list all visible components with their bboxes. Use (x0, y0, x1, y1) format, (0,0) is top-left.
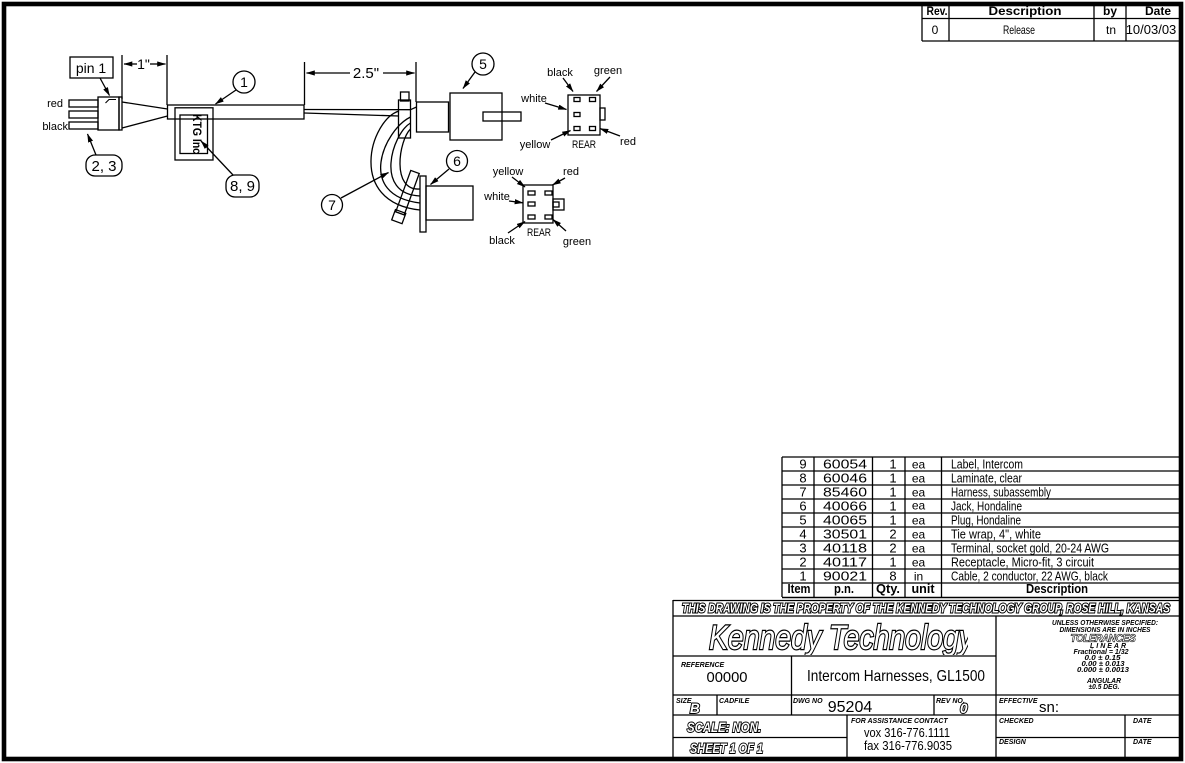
svg-text:ea: ea (912, 514, 926, 528)
svg-text:9: 9 (799, 457, 806, 472)
svg-text:ea: ea (912, 542, 926, 556)
svg-text:60054: 60054 (823, 457, 867, 472)
svg-text:7: 7 (328, 197, 336, 213)
svg-text:1: 1 (889, 499, 896, 514)
svg-text:Date: Date (1145, 4, 1171, 18)
svg-text:1: 1 (889, 457, 896, 472)
svg-text:ea: ea (912, 458, 926, 472)
svg-text:10/03/03: 10/03/03 (1126, 22, 1177, 37)
svg-text:UNLESS OTHERWISE SPECIFIED:: UNLESS OTHERWISE SPECIFIED: (1052, 620, 1158, 627)
svg-text:6: 6 (453, 153, 461, 169)
svg-text:Release: Release (1003, 23, 1035, 37)
svg-text:6: 6 (799, 499, 806, 514)
svg-text:1: 1 (889, 485, 896, 500)
svg-text:Tie wrap, 4", white: Tie wrap, 4", white (951, 527, 1041, 542)
svg-text:±0.5 DEG.: ±0.5 DEG. (1089, 684, 1120, 691)
svg-text:B: B (690, 701, 700, 716)
svg-text:1": 1" (137, 56, 150, 72)
svg-text:KTG Inc: KTG Inc (190, 114, 204, 154)
svg-text:black: black (489, 235, 515, 247)
svg-text:Terminal, socket gold, 20-24 A: Terminal, socket gold, 20-24 AWG (951, 541, 1109, 556)
svg-text:EFFECTIVE: EFFECTIVE (999, 698, 1038, 705)
svg-text:yellow: yellow (520, 139, 551, 151)
svg-text:00000: 00000 (707, 669, 748, 686)
svg-text:pin 1: pin 1 (76, 60, 107, 76)
svg-text:1: 1 (889, 471, 896, 486)
svg-text:Plug, Hondaline: Plug, Hondaline (951, 513, 1021, 528)
svg-text:0.000 ± 0.0013: 0.000 ± 0.0013 (1077, 667, 1129, 674)
svg-text:2: 2 (799, 555, 806, 570)
svg-text:REAR: REAR (527, 227, 551, 239)
svg-text:tn: tn (1106, 23, 1116, 37)
svg-text:yellow: yellow (493, 166, 524, 178)
svg-text:THIS DRAWING IS THE PROPERTY O: THIS DRAWING IS THE PROPERTY OF THE KENN… (682, 602, 1171, 616)
svg-text:Label, Intercom: Label, Intercom (951, 457, 1023, 472)
svg-text:CADFILE: CADFILE (719, 698, 750, 705)
svg-text:ea: ea (912, 472, 926, 486)
svg-text:Qty.: Qty. (876, 581, 900, 596)
svg-text:95204: 95204 (828, 699, 873, 716)
svg-text:black: black (547, 67, 573, 79)
svg-text:Jack, Hondaline: Jack, Hondaline (951, 499, 1022, 514)
svg-text:Kennedy Technology: Kennedy Technology (709, 619, 975, 657)
svg-text:unit: unit (912, 581, 936, 596)
svg-text:Item: Item (788, 581, 811, 596)
svg-text:0: 0 (932, 23, 939, 37)
svg-text:0: 0 (960, 701, 968, 716)
svg-text:40118: 40118 (823, 541, 867, 556)
svg-text:8: 8 (799, 471, 806, 486)
svg-text:85460: 85460 (823, 485, 867, 500)
svg-text:40065: 40065 (823, 513, 867, 528)
svg-text:40117: 40117 (823, 555, 867, 570)
svg-text:2.5": 2.5" (353, 65, 379, 82)
svg-text:40066: 40066 (823, 499, 867, 514)
svg-text:ea: ea (912, 499, 926, 513)
svg-text:white: white (520, 93, 547, 105)
svg-text:p.n.: p.n. (834, 581, 854, 596)
svg-text:white: white (483, 191, 510, 203)
svg-text:REFERENCE: REFERENCE (681, 662, 725, 669)
svg-text:ea: ea (912, 528, 926, 542)
svg-text:7: 7 (799, 485, 806, 500)
svg-text:vox 316-776.1111: vox 316-776.1111 (864, 726, 950, 740)
svg-text:2, 3: 2, 3 (91, 158, 116, 175)
svg-text:DWG NO: DWG NO (793, 698, 823, 705)
svg-text:1: 1 (240, 74, 248, 90)
svg-text:Harness, subassembly: Harness, subassembly (951, 485, 1051, 500)
svg-text:ea: ea (912, 556, 926, 570)
svg-text:Description: Description (989, 4, 1062, 18)
svg-text:FOR ASSISTANCE CONTACT: FOR ASSISTANCE CONTACT (851, 718, 948, 725)
svg-text:3: 3 (799, 541, 806, 556)
svg-text:SHEET 1 OF 1: SHEET 1 OF 1 (690, 741, 763, 756)
svg-text:red: red (620, 136, 636, 148)
svg-text:black: black (42, 121, 68, 133)
svg-text:SCALE: NON.: SCALE: NON. (687, 720, 761, 735)
svg-text:by: by (1103, 4, 1117, 18)
svg-text:fax 316-776.9035: fax 316-776.9035 (864, 739, 952, 753)
svg-text:CHECKED: CHECKED (999, 718, 1034, 725)
svg-text:REAR: REAR (572, 139, 596, 151)
svg-text:green: green (594, 65, 622, 77)
svg-text:green: green (563, 236, 591, 248)
svg-text:Receptacle, Micro-fit, 3 circu: Receptacle, Micro-fit, 3 circuit (951, 555, 1094, 570)
svg-text:60046: 60046 (823, 471, 867, 486)
svg-text:8, 9: 8, 9 (230, 178, 255, 195)
svg-text:5: 5 (479, 56, 487, 72)
svg-text:DESIGN: DESIGN (999, 739, 1027, 746)
svg-text:DATE: DATE (1133, 739, 1152, 746)
svg-text:red: red (47, 98, 63, 110)
svg-text:2: 2 (889, 541, 896, 556)
svg-text:1: 1 (889, 555, 896, 570)
svg-text:ea: ea (912, 486, 926, 500)
svg-text:30501: 30501 (823, 527, 867, 542)
svg-text:Intercom Harnesses, GL1500: Intercom Harnesses, GL1500 (807, 668, 985, 685)
svg-text:1: 1 (889, 513, 896, 528)
svg-text:DATE: DATE (1133, 718, 1152, 725)
svg-text:red: red (563, 166, 579, 178)
svg-text:2: 2 (889, 527, 896, 542)
svg-text:4: 4 (799, 527, 806, 542)
svg-text:Description: Description (1026, 581, 1088, 596)
svg-text:Laminate, clear: Laminate, clear (951, 471, 1023, 486)
svg-text:Rev.: Rev. (927, 4, 948, 18)
svg-text:5: 5 (799, 513, 806, 528)
svg-text:sn:: sn: (1039, 699, 1059, 716)
